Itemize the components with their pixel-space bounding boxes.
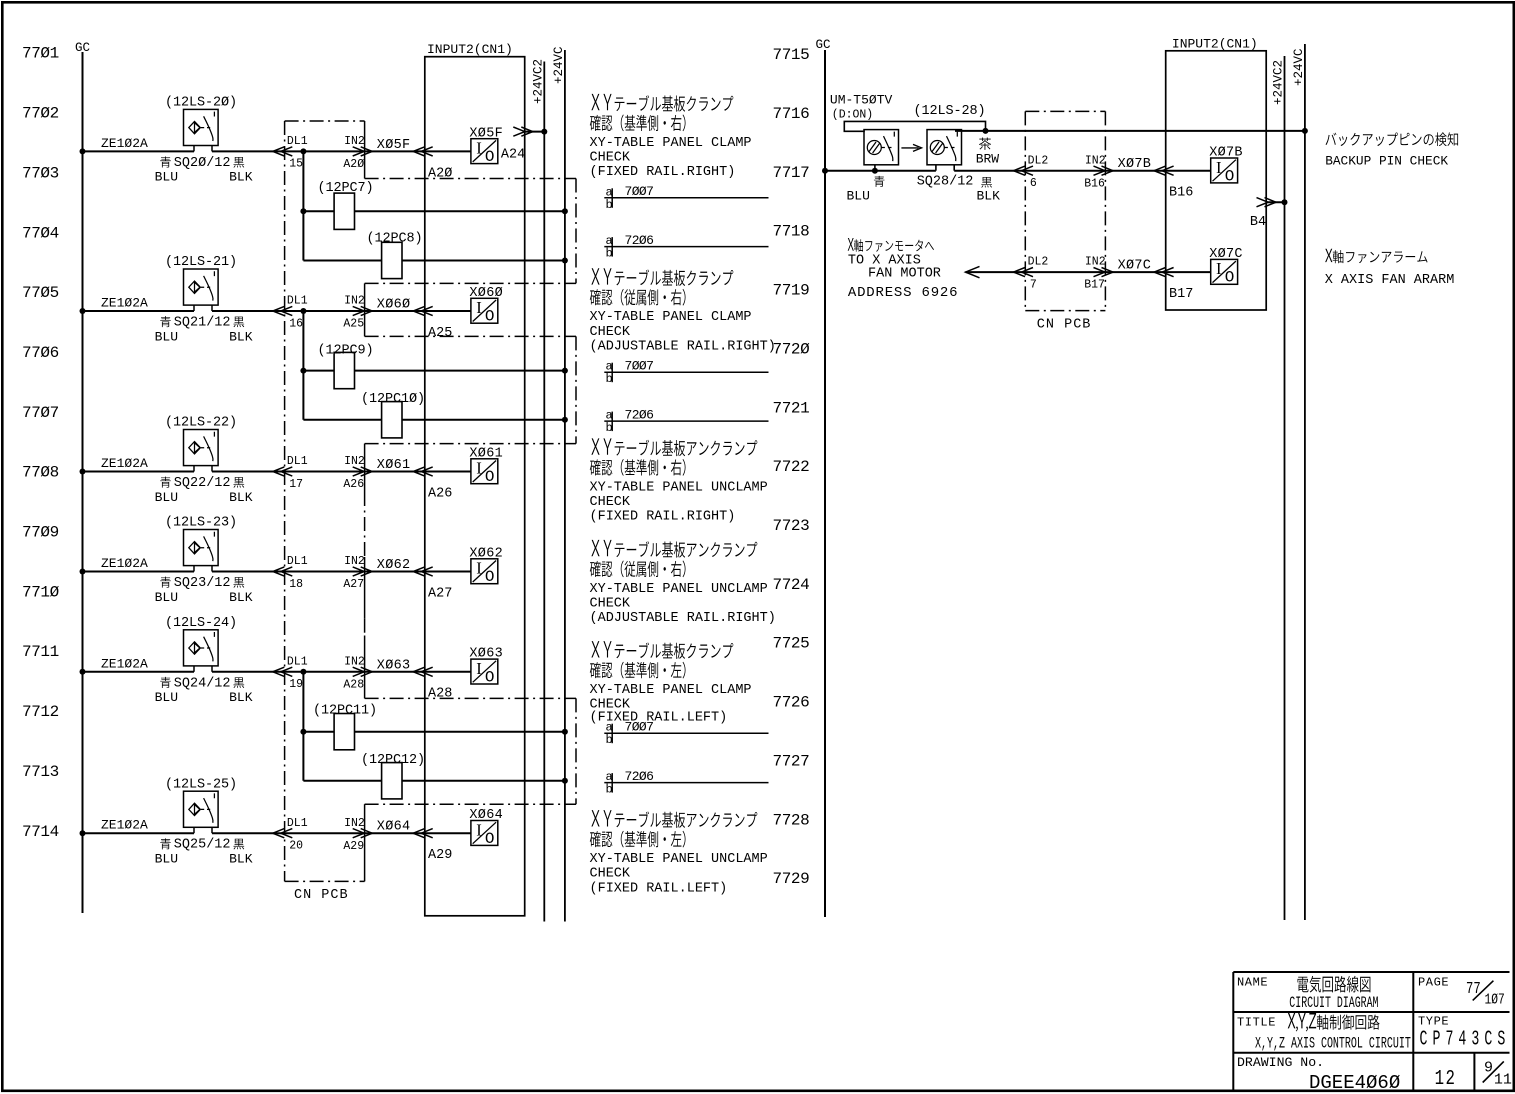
svg-text:ZE1Ø2A: ZE1Ø2A [101, 818, 148, 833]
svg-text:(12LS-22): (12LS-22) [165, 416, 237, 431]
svg-text:77Ø5: 77Ø5 [22, 284, 59, 302]
wire row 7719 X07C [966, 271, 1211, 273]
wire 12PC12 row [303, 780, 565, 782]
svg-text:b: b [606, 247, 613, 261]
svg-text:DL2: DL2 [1028, 154, 1049, 167]
svg-text:7728: 7728 [773, 811, 810, 829]
svg-text:+24VC: +24VC [552, 46, 566, 84]
title kanji xyz axis control [1288, 1013, 1380, 1031]
cable boundary A25 [365, 335, 576, 337]
svg-text:IN2: IN2 [344, 555, 365, 568]
svg-text:GC: GC [75, 41, 90, 55]
svg-text:A24: A24 [501, 147, 525, 162]
chevron at INPUT2 row 5 [413, 667, 433, 676]
svg-text:XY-TABLE PANEL UNCLAMP: XY-TABLE PANEL UNCLAMP [590, 582, 768, 597]
wire row 5 (net X063) [83, 671, 195, 673]
svg-text:TITLE: TITLE [1237, 1016, 1276, 1030]
cable boundary row3 top [365, 443, 576, 445]
svg-text:BLU: BLU [155, 590, 178, 605]
CN PCB boundary right (dash-dot box) [1024, 111, 1026, 310]
svg-text:7719: 7719 [773, 282, 810, 300]
cable boundary A28 [365, 697, 576, 699]
junction GC row 2 [80, 308, 86, 314]
svg-text:O: O [485, 308, 495, 326]
svg-text:FAN MOTOR: FAN MOTOR [868, 267, 941, 282]
svg-text:b: b [606, 783, 613, 797]
svg-text:I: I [476, 298, 482, 317]
wire 12PC7 row [303, 210, 565, 212]
label black kanji [233, 577, 244, 588]
svg-text:IN2: IN2 [344, 135, 365, 148]
cable boundary right verticals [575, 179, 577, 284]
svg-text:7721: 7721 [773, 399, 810, 417]
svg-text:CHECK: CHECK [590, 325, 631, 340]
label black kanji [233, 839, 244, 850]
svg-text:PAGE: PAGE [1418, 976, 1449, 990]
svg-text:(12LS-23): (12LS-23) [165, 516, 237, 531]
svg-text:A28: A28 [343, 678, 364, 691]
arrow to fan motor [966, 266, 980, 277]
svg-text:BLK: BLK [229, 170, 253, 185]
junction +24VC 12PC7 [562, 208, 568, 214]
limit switch SQ25/12 (12LS-25) [184, 791, 219, 827]
label blue kanji [160, 477, 171, 488]
label blue kanji [160, 316, 171, 327]
svg-text:772Ø: 772Ø [773, 340, 811, 358]
svg-text:7722: 7722 [773, 458, 810, 476]
svg-text:(12LS-21): (12LS-21) [165, 255, 237, 270]
description text block [591, 438, 757, 456]
svg-text:771Ø: 771Ø [22, 583, 60, 601]
junction +24VC 12PC10 [562, 417, 568, 423]
I/O indicator X062 [471, 559, 498, 584]
svg-text:XY-TABLE PANEL UNCLAMP: XY-TABLE PANEL UNCLAMP [590, 480, 768, 495]
text backup pin check [1326, 132, 1459, 146]
svg-text:CN PCB: CN PCB [1037, 317, 1092, 332]
label black kanji [981, 177, 992, 188]
svg-text:XØ7B: XØ7B [1209, 146, 1243, 161]
svg-text:(12LS-28): (12LS-28) [914, 104, 986, 119]
junction riser [300, 208, 306, 214]
chevron at INPUT2 row 2 [413, 306, 433, 315]
svg-text:72Ø6: 72Ø6 [625, 407, 654, 422]
svg-text:(12LS-25): (12LS-25) [165, 777, 237, 792]
junction +24VC 12PC9 [562, 368, 568, 374]
svg-text:XØ62: XØ62 [469, 546, 503, 561]
svg-text:O: O [485, 830, 495, 848]
I/O indicator X07C [1211, 259, 1238, 284]
junction +24VC right [1302, 128, 1308, 134]
svg-text:(12PC12): (12PC12) [361, 753, 425, 768]
chevron IN2 row 2 [353, 306, 373, 315]
cable boundary row2 top [365, 282, 576, 284]
svg-text:CHECK: CHECK [590, 151, 631, 166]
svg-text:IN2: IN2 [344, 295, 365, 308]
wire 12PC11 row [303, 731, 565, 733]
junction GC 7717 [822, 168, 828, 174]
chevron DL1 row 4 [273, 567, 293, 576]
svg-text:7717: 7717 [773, 164, 810, 182]
svg-text:BLU: BLU [155, 852, 178, 867]
svg-text:BLU: BLU [847, 189, 870, 204]
svg-text:CHECK: CHECK [590, 867, 631, 882]
svg-text:XØ6Ø: XØ6Ø [469, 286, 503, 301]
chevrons row X07B [1014, 166, 1034, 175]
terminal a/b net 7ØØ7 [604, 197, 768, 199]
description text block [591, 268, 733, 286]
chevron DL1 row 5 [273, 667, 293, 676]
svg-text:(12PC11): (12PC11) [313, 704, 377, 719]
connector INPUT2(CN1) left [425, 57, 525, 916]
limit switch SQ22/12 (12LS-22) [184, 430, 219, 466]
svg-text:I: I [476, 139, 482, 158]
chevron to +24VC2 [513, 127, 533, 136]
svg-text:B16: B16 [1084, 177, 1105, 190]
svg-text:XØ61: XØ61 [377, 458, 411, 473]
svg-text:BLK: BLK [229, 690, 253, 705]
svg-text:(FIXED RAIL.LEFT): (FIXED RAIL.LEFT) [590, 881, 728, 896]
terminal a/b net 72Ø6 [604, 420, 768, 422]
chevron at INPUT2 row 1 [413, 147, 433, 156]
limit switch SQ21/12 (12LS-21) [184, 269, 219, 305]
chevron DL1 row 6 [273, 829, 293, 838]
wire bracket UM-T50TV [844, 121, 985, 131]
svg-text:A2Ø: A2Ø [343, 158, 364, 171]
svg-text:(12PC7): (12PC7) [318, 181, 374, 196]
chevron at INPUT2 row 4 [413, 567, 433, 576]
svg-text:XØ62: XØ62 [377, 558, 411, 573]
svg-text:IN2: IN2 [1085, 256, 1106, 269]
chevron IN2 row 6 [353, 829, 373, 838]
svg-text:XØ64: XØ64 [469, 808, 503, 823]
chevron IN2 row 3 [353, 467, 373, 476]
wire to +24VC2 [525, 131, 545, 133]
svg-text:XØ64: XØ64 [377, 820, 411, 835]
svg-text:11: 11 [1494, 1071, 1512, 1088]
svg-text:7729: 7729 [773, 870, 810, 888]
svg-text:CP743CS: CP743CS [1420, 1028, 1511, 1052]
svg-text:BLK: BLK [977, 189, 1001, 204]
svg-text:XY-TABLE PANEL CLAMP: XY-TABLE PANEL CLAMP [590, 136, 752, 151]
svg-text:7711: 7711 [22, 643, 59, 661]
svg-text:A25: A25 [343, 318, 364, 331]
svg-text:(12LS-2Ø): (12LS-2Ø) [165, 96, 237, 111]
svg-text:O: O [485, 568, 495, 586]
svg-text:ZE1Ø2A: ZE1Ø2A [101, 656, 148, 671]
svg-text:O: O [1225, 269, 1235, 287]
relay 12PC9 [334, 352, 354, 388]
label blue kanji [160, 157, 171, 168]
relay 12PC12 [382, 763, 402, 799]
net +24VC2 (right) [1284, 56, 1286, 920]
svg-text:I: I [476, 820, 482, 839]
svg-text:72Ø6: 72Ø6 [625, 769, 654, 784]
svg-text:B4: B4 [1250, 215, 1266, 230]
svg-text:+24VC: +24VC [1292, 48, 1306, 86]
wire 12PC10 row [303, 419, 565, 421]
wire row 3 (net X061) [83, 471, 195, 473]
svg-text:DGEE4Ø6Ø: DGEE4Ø6Ø [1309, 1072, 1400, 1094]
svg-text:IN2: IN2 [344, 817, 365, 830]
svg-text:ZE1Ø2A: ZE1Ø2A [101, 136, 148, 151]
wire row 7717 [825, 170, 936, 172]
svg-text:7718: 7718 [773, 223, 810, 241]
chevron at INPUT2 row 6 [413, 829, 433, 838]
svg-text:7: 7 [1030, 278, 1037, 291]
svg-text:1Ø7: 1Ø7 [1485, 991, 1505, 1008]
svg-text:ZE1Ø2A: ZE1Ø2A [101, 296, 148, 311]
junction riser [300, 729, 306, 735]
svg-text:XY-TABLE PANEL CLAMP: XY-TABLE PANEL CLAMP [590, 683, 752, 698]
svg-text:7ØØ7: 7ØØ7 [625, 184, 654, 199]
svg-text:77Ø8: 77Ø8 [22, 464, 59, 482]
svg-text:A29: A29 [343, 840, 364, 853]
label blue kanji [160, 838, 171, 849]
svg-text:ZE1Ø2A: ZE1Ø2A [101, 456, 148, 471]
svg-text:CHECK: CHECK [590, 495, 631, 510]
label black kanji [233, 157, 244, 168]
svg-text:A29: A29 [428, 848, 452, 863]
svg-text:XØ6Ø: XØ6Ø [377, 298, 411, 313]
label blue kanji [160, 577, 171, 588]
svg-text:O: O [1225, 167, 1235, 185]
junction GC row 3 [80, 469, 86, 475]
I/O indicator X063 [471, 659, 498, 684]
svg-text:GC: GC [816, 38, 831, 52]
chevron DL1 row 3 [273, 467, 293, 476]
text fan alarm [1325, 249, 1427, 263]
label blue kanji [160, 677, 171, 688]
description text block [591, 94, 733, 112]
svg-text:77Ø6: 77Ø6 [22, 344, 59, 362]
CN PCB boundary top edge [285, 120, 365, 122]
svg-text:A28: A28 [428, 687, 452, 702]
svg-text:BLK: BLK [229, 329, 253, 344]
svg-text:BLK: BLK [229, 852, 253, 867]
terminal a/b net 7ØØ7 [604, 371, 768, 373]
relay 12PC7 [334, 193, 354, 229]
svg-text:A27: A27 [343, 578, 364, 591]
svg-text:A26: A26 [428, 486, 452, 501]
svg-text:INPUT2(CN1): INPUT2(CN1) [427, 42, 513, 57]
svg-text:77Ø2: 77Ø2 [22, 105, 59, 123]
description text block [591, 540, 757, 558]
svg-text:BRW: BRW [976, 152, 1000, 167]
junction riser [300, 308, 306, 314]
svg-text:UM-T5ØTV: UM-T5ØTV [830, 92, 893, 107]
svg-text:(FIXED RAIL.RIGHT): (FIXED RAIL.RIGHT) [590, 510, 736, 525]
junction riser [300, 148, 306, 154]
junction bracket [983, 128, 989, 134]
junction riser [300, 368, 306, 374]
svg-text:BACKUP PIN CHECK: BACKUP PIN CHECK [1325, 154, 1448, 169]
svg-text:XØ5F: XØ5F [469, 126, 503, 141]
svg-text:77Ø7: 77Ø7 [22, 404, 59, 422]
cable boundary row6 top [365, 803, 576, 805]
svg-text:DL1: DL1 [287, 555, 308, 568]
chevron at INPUT2 row 3 [413, 467, 433, 476]
net +24VC2 (left) [543, 62, 545, 922]
text to fan motor [848, 238, 934, 252]
svg-text:7712: 7712 [22, 703, 59, 721]
net +24VC (left) [564, 50, 566, 922]
svg-text:7713: 7713 [22, 763, 59, 781]
svg-text:XY-TABLE PANEL UNCLAMP: XY-TABLE PANEL UNCLAMP [590, 852, 768, 867]
junction GC row 4 [80, 569, 86, 575]
svg-text:A2Ø: A2Ø [428, 166, 452, 181]
switch UM-T50TV [864, 130, 899, 165]
svg-text:+24VC2: +24VC2 [1272, 60, 1286, 105]
svg-text:77Ø1: 77Ø1 [22, 45, 59, 63]
wire row 4 (net X062) [83, 571, 195, 573]
terminal a/b net 72Ø6 [604, 246, 768, 248]
junction +24VC 12PC11 [562, 729, 568, 735]
svg-text:b: b [606, 733, 613, 747]
svg-text:SQ2Ø/12: SQ2Ø/12 [174, 156, 231, 171]
wire net backup pin [955, 130, 1305, 132]
svg-text:DRAWING No.: DRAWING No. [1237, 1055, 1324, 1070]
svg-text:BLU: BLU [155, 690, 178, 705]
node GC (left rail) [82, 52, 84, 913]
svg-text:X,Y,Z AXIS CONTROL CIRCUIT: X,Y,Z AXIS CONTROL CIRCUIT [1255, 1036, 1411, 1054]
terminal a/b net 72Ø6 [604, 782, 768, 784]
svg-text:(ADJUSTABLE RAIL.RIGHT): (ADJUSTABLE RAIL.RIGHT) [590, 339, 776, 354]
svg-text:IN2: IN2 [1085, 154, 1106, 167]
title block table [1233, 972, 1509, 1090]
I/O indicator X07B [1211, 158, 1238, 183]
svg-text:O: O [485, 148, 495, 166]
wire 12PC8 row [303, 260, 565, 262]
svg-text:SQ21/12: SQ21/12 [174, 316, 231, 331]
svg-text:(ADJUSTABLE RAIL.RIGHT): (ADJUSTABLE RAIL.RIGHT) [590, 611, 776, 626]
svg-text:(FIXED RAIL.LEFT): (FIXED RAIL.LEFT) [590, 710, 728, 725]
CN PCB boundary bottom edge [285, 880, 365, 882]
svg-text:12: 12 [1435, 1067, 1457, 1091]
svg-text:17: 17 [289, 478, 303, 491]
label blue kanji [874, 176, 885, 187]
svg-text:XY-TABLE PANEL CLAMP: XY-TABLE PANEL CLAMP [590, 310, 752, 325]
svg-text:7726: 7726 [773, 694, 810, 712]
svg-text:b: b [606, 421, 613, 435]
svg-text:CHECK: CHECK [590, 597, 631, 612]
connector INPUT2(CN1) right [1166, 51, 1267, 310]
limit switch SQ28/12 (12LS-28) [927, 130, 962, 165]
relay 12PC10 [382, 402, 402, 438]
svg-text:BLU: BLU [155, 490, 178, 505]
svg-text:XØ7C: XØ7C [1209, 247, 1243, 262]
I/O indicator X061 [471, 459, 498, 484]
junction GC row 6 [80, 830, 86, 836]
svg-text:BLU: BLU [155, 329, 178, 344]
svg-text:7724: 7724 [773, 576, 810, 594]
junction GC row 5 [80, 669, 86, 675]
svg-text:A26: A26 [343, 478, 364, 491]
svg-text:ADDRESS 6926: ADDRESS 6926 [848, 285, 958, 301]
wire B4 to +24VC2 [1266, 201, 1284, 203]
net +24VC (right) [1304, 44, 1306, 920]
I/O indicator X064 [471, 821, 498, 846]
actuation arrow [901, 144, 921, 151]
svg-text:I: I [476, 559, 482, 578]
svg-text:I: I [476, 459, 482, 478]
wire row 1 (net X05F) [83, 150, 195, 152]
chevron DL1 row 2 [273, 306, 293, 315]
svg-text:DL1: DL1 [287, 295, 308, 308]
svg-text:CIRCUIT DIAGRAM: CIRCUIT DIAGRAM [1289, 994, 1378, 1012]
svg-text:7725: 7725 [773, 635, 810, 653]
description text block [591, 810, 757, 828]
svg-text:A27: A27 [428, 586, 452, 601]
svg-text:O: O [485, 468, 495, 486]
svg-text:O: O [485, 668, 495, 686]
svg-text:(12PC9): (12PC9) [318, 344, 374, 359]
svg-text:(D:ON): (D:ON) [832, 109, 873, 122]
junction +24VC 12PC12 [562, 778, 568, 784]
relay 12PC11 [334, 714, 354, 750]
svg-text:20: 20 [289, 840, 303, 853]
svg-text:SQ28/12: SQ28/12 [917, 175, 974, 190]
terminal a/b net 7ØØ7 [604, 732, 768, 734]
svg-text:I: I [1216, 259, 1222, 278]
svg-text:ZE1Ø2A: ZE1Ø2A [101, 556, 148, 571]
svg-text:BLK: BLK [229, 490, 253, 505]
svg-text:DL1: DL1 [287, 817, 308, 830]
svg-text:b: b [606, 372, 613, 386]
chevron IN2 row 5 [353, 667, 373, 676]
svg-text:7727: 7727 [773, 752, 810, 770]
svg-text:7723: 7723 [773, 517, 810, 535]
svg-text:SQ23/12: SQ23/12 [174, 576, 231, 591]
svg-text:(12PC1Ø): (12PC1Ø) [361, 392, 425, 407]
junction +24VC2 right [1282, 199, 1288, 205]
svg-text:(FIXED RAIL.RIGHT): (FIXED RAIL.RIGHT) [590, 165, 736, 180]
svg-text:(12LS-24): (12LS-24) [165, 616, 237, 631]
svg-text:16: 16 [289, 317, 303, 330]
svg-text:7714: 7714 [22, 823, 59, 841]
svg-text:XØ7B: XØ7B [1118, 157, 1152, 172]
chevrons row X07C [1014, 268, 1034, 277]
svg-text:INPUT2(CN1): INPUT2(CN1) [1172, 37, 1258, 52]
svg-text:NAME: NAME [1237, 976, 1268, 990]
svg-text:SQ25/12: SQ25/12 [174, 838, 231, 853]
svg-text:72Ø6: 72Ø6 [625, 233, 654, 248]
svg-text:BLK: BLK [229, 590, 253, 605]
description text block [591, 641, 733, 659]
svg-text:XØ63: XØ63 [377, 658, 411, 673]
svg-text:I: I [476, 659, 482, 678]
svg-text:SQ22/12: SQ22/12 [174, 476, 231, 491]
chevron IN2 row 1 [353, 147, 373, 156]
svg-text:DL1: DL1 [287, 655, 308, 668]
svg-text:IN2: IN2 [344, 455, 365, 468]
svg-text:b: b [606, 198, 613, 212]
limit switch SQ24/12 (12LS-24) [184, 630, 219, 666]
limit switch SQ23/12 (12LS-23) [184, 530, 219, 566]
svg-text:+24VC2: +24VC2 [532, 59, 546, 104]
junction +24VC 12PC8 [562, 258, 568, 264]
svg-text:XØ61: XØ61 [469, 446, 503, 461]
svg-text:DL1: DL1 [287, 455, 308, 468]
cable boundary A20 [365, 178, 576, 180]
svg-text:(12PC8): (12PC8) [367, 232, 423, 247]
svg-text:15: 15 [289, 158, 303, 171]
junction riser [300, 669, 306, 675]
label black kanji [233, 477, 244, 488]
svg-text:B17: B17 [1169, 287, 1193, 302]
svg-text:7ØØ7: 7ØØ7 [625, 358, 654, 373]
label black kanji [233, 677, 244, 688]
svg-text:A25: A25 [428, 326, 452, 341]
